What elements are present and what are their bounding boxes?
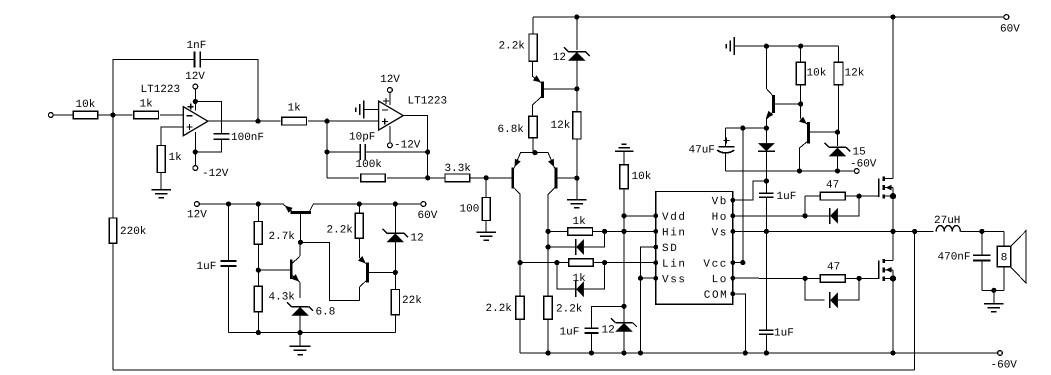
ground at U2 inverting input xyxy=(356,101,378,119)
wire node A up to C1 xyxy=(113,60,195,116)
node -12V terminal of U1 xyxy=(193,166,229,180)
resistor R8 2.7k xyxy=(254,204,295,270)
wire Ho stub up xyxy=(805,196,820,216)
resistor R13 6.8k xyxy=(497,116,537,152)
resistor R17 2.2k xyxy=(544,247,583,353)
wire output feedback down xyxy=(914,231,916,370)
svg-text:LT1223: LT1223 xyxy=(407,96,447,108)
wire R24 to M2 gate xyxy=(846,277,879,279)
resistor R6 3.3k xyxy=(428,163,472,182)
svg-text:2.7k: 2.7k xyxy=(268,231,295,243)
capacitor C9 470nF xyxy=(937,231,990,290)
wire Lin left to R19 xyxy=(557,262,569,264)
capacitor C4 1uF xyxy=(196,204,236,333)
wire oscillator ground rail xyxy=(229,330,396,335)
zener D3 12 xyxy=(553,17,590,89)
svg-text:12V: 12V xyxy=(380,74,400,86)
wire U1 supply to C2 xyxy=(195,101,221,133)
svg-text:4.3k: 4.3k xyxy=(268,292,295,304)
wire Lo stub down xyxy=(805,278,824,300)
svg-text:12V: 12V xyxy=(187,209,207,221)
svg-text:60V: 60V xyxy=(417,210,437,222)
wire R8 to Q2 base xyxy=(258,269,290,271)
node U3 pin Vdd xyxy=(653,212,686,224)
wire COM stub xyxy=(733,294,745,353)
wire Q1 base to Q3 collector xyxy=(300,242,359,300)
wire R2 to U1 inverting input xyxy=(160,114,184,116)
svg-text:1k: 1k xyxy=(168,152,182,164)
svg-text:Hin: Hin xyxy=(662,227,687,239)
diode D5 parallel R19 xyxy=(557,263,605,298)
wire R23 to M1 gate xyxy=(846,195,879,197)
node R19 left junction xyxy=(554,260,559,265)
svg-text:COM: COM xyxy=(704,290,729,302)
ground below R3 xyxy=(151,173,171,198)
node U3 pin Hin xyxy=(653,227,686,239)
wire main -60V rail xyxy=(520,350,998,355)
resistor R20 10k xyxy=(620,165,652,323)
transistor Q3 pnp xyxy=(358,238,395,300)
node B junction xyxy=(324,119,329,124)
node R19 right junction xyxy=(602,260,607,265)
wire Ho row xyxy=(733,213,830,218)
capacitor C1 1nF xyxy=(186,40,206,68)
svg-text:1k: 1k xyxy=(572,273,586,285)
ground of aux supply xyxy=(726,37,753,55)
wire U2 output down xyxy=(403,115,430,180)
svg-text:27uH: 27uH xyxy=(934,215,960,227)
svg-text:1k: 1k xyxy=(287,103,301,115)
wire Vdd row xyxy=(624,215,656,217)
resistor R18 1k xyxy=(568,216,593,235)
inductor L1 27uH xyxy=(934,215,960,231)
node U3 pin Vs xyxy=(712,227,736,239)
node input terminal IN xyxy=(48,113,73,118)
wire U1 output xyxy=(208,119,281,124)
transistor M2 nmos xyxy=(879,259,893,281)
transistor Q4 pnp xyxy=(512,153,535,263)
transistor Q8 npn xyxy=(766,46,801,128)
node C junction xyxy=(484,175,489,180)
svg-text:1uF: 1uF xyxy=(774,328,794,340)
capacitor C6 47uF xyxy=(688,128,734,171)
node -60V terminal of aux rail xyxy=(850,159,877,174)
node -12V terminal of U2 xyxy=(388,140,421,152)
resistor R14 2.2k xyxy=(498,17,537,61)
transistor M1 nmos xyxy=(879,177,893,199)
wire Vcc node row xyxy=(726,126,769,131)
svg-text:1k: 1k xyxy=(572,216,586,228)
svg-text:12: 12 xyxy=(601,325,614,337)
resistor R12 220k xyxy=(109,115,147,370)
zener D2 12 xyxy=(382,204,423,272)
resistor R7 100 xyxy=(459,178,490,221)
node C7 bottom junction on Vs row xyxy=(764,229,769,234)
node U3 pin SD xyxy=(653,243,678,255)
wire Hin row left xyxy=(548,230,567,232)
node 60V supply terminal xyxy=(1000,15,1020,36)
wire node A to R2 xyxy=(113,114,133,116)
wire M1 source to output xyxy=(892,196,894,231)
svg-text:100k: 100k xyxy=(355,159,382,171)
svg-text:6.8k: 6.8k xyxy=(497,124,524,136)
svg-text:1uF: 1uF xyxy=(559,327,579,339)
speaker SPK 8 ohm xyxy=(997,231,1026,291)
svg-text:10k: 10k xyxy=(631,171,651,183)
resistor R23 47 xyxy=(820,180,845,201)
ground of output xyxy=(984,290,1004,312)
resistor R1 10k xyxy=(73,99,98,119)
resistor R19 1k xyxy=(569,259,594,285)
node speaker ground junction xyxy=(991,288,996,293)
svg-text:1uF: 1uF xyxy=(196,261,216,273)
svg-text:2.2k: 2.2k xyxy=(498,41,525,53)
node output junction xyxy=(979,229,984,234)
zener D1 6.8 xyxy=(287,302,335,332)
wire global feedback bottom xyxy=(113,369,915,371)
svg-text:100: 100 xyxy=(459,204,479,216)
node Q1 base junction xyxy=(298,240,303,245)
diode D7 bootstrap xyxy=(758,128,775,181)
wire R6 to node C xyxy=(469,177,511,179)
wire C2 to -12V node xyxy=(193,139,222,154)
wire L1 to output node xyxy=(960,230,1003,232)
node bootstrap junction xyxy=(764,178,769,183)
node Q3 base junction xyxy=(393,270,398,275)
wire Vb jog xyxy=(733,181,767,200)
svg-text:-60V: -60V xyxy=(850,159,877,171)
node A junction xyxy=(110,112,115,117)
diode D10 gate low xyxy=(830,278,860,308)
capacitor C3 10pF xyxy=(327,132,428,161)
zener D6 12 xyxy=(601,318,636,353)
resistor R9 4.3k xyxy=(254,270,295,332)
svg-text:Vb: Vb xyxy=(712,196,728,208)
wire SD to Vss tie xyxy=(638,247,656,353)
node Q7 collector junction xyxy=(546,229,551,234)
wire C1 to U1 output node xyxy=(200,60,258,122)
zener D8 15 xyxy=(825,132,866,171)
svg-text:Ho: Ho xyxy=(712,212,728,224)
svg-text:8: 8 xyxy=(1001,252,1008,264)
svg-text:3.3k: 3.3k xyxy=(444,163,471,175)
wire U2 +12V supply xyxy=(389,92,391,105)
wire Vcc stub xyxy=(733,128,746,265)
wire aux -60V rail xyxy=(726,168,855,173)
ground below R15 xyxy=(567,178,587,207)
svg-text:-60V: -60V xyxy=(990,360,1017,372)
wire Lin row left xyxy=(520,262,557,264)
transistor Q2 npn xyxy=(291,242,300,298)
transistor Q5 pnp xyxy=(532,61,576,116)
wire R19 to IC Lin xyxy=(593,262,656,264)
resistor R15 12k xyxy=(550,89,581,178)
wire 60V rail of oscillator xyxy=(357,201,421,206)
svg-text:1nF: 1nF xyxy=(186,40,206,52)
node 12V terminal of U1 xyxy=(185,71,205,89)
node M1 gate junction xyxy=(857,194,862,199)
svg-text:2.2k: 2.2k xyxy=(485,303,512,315)
capacitor C2 100nF xyxy=(213,132,264,144)
svg-text:6.8: 6.8 xyxy=(315,307,335,319)
node Q5 base junction xyxy=(574,86,579,91)
svg-text:2.2k: 2.2k xyxy=(326,225,353,237)
ground above R20 xyxy=(615,144,634,164)
svg-text:Lo: Lo xyxy=(712,274,728,286)
svg-text:22k: 22k xyxy=(402,295,422,307)
node Q9 base junction xyxy=(835,130,840,135)
node 60V terminal of oscillator xyxy=(417,202,437,222)
resistor R21 10k xyxy=(796,46,827,118)
resistor R3 1k to ground xyxy=(157,127,183,173)
svg-text:12k: 12k xyxy=(550,120,570,132)
diode D4 parallel R18 xyxy=(546,231,605,255)
wire Hin row to IC xyxy=(621,229,655,234)
node U3 pin Ho xyxy=(712,212,736,224)
svg-text:-12V: -12V xyxy=(394,140,421,152)
svg-text:Vdd: Vdd xyxy=(662,212,687,224)
node U3 pin Vcc xyxy=(703,259,735,271)
svg-text:15: 15 xyxy=(852,147,865,159)
node M2 source dot xyxy=(890,275,896,281)
svg-text:220k: 220k xyxy=(120,226,147,238)
op-amp U2 LT1223 xyxy=(379,96,448,131)
capacitor C8 1uF xyxy=(759,231,794,353)
svg-text:100nF: 100nF xyxy=(231,132,264,144)
svg-text:12V: 12V xyxy=(185,71,205,83)
node 12V terminal of regulator xyxy=(187,202,207,222)
svg-text:LT1223: LT1223 xyxy=(140,84,180,96)
IC U3 IR2110 gate driver xyxy=(656,192,733,305)
node U3 pin Lo xyxy=(712,274,736,286)
resistor R10 2.2k xyxy=(326,204,363,238)
wire U2 -12V supply pin xyxy=(389,126,391,143)
svg-text:12k: 12k xyxy=(844,68,864,80)
transistor Q7 pnp xyxy=(535,153,577,232)
svg-text:47: 47 xyxy=(827,262,840,274)
ground below R7 xyxy=(476,221,496,241)
node U3 pin COM xyxy=(704,290,736,302)
transistor Q1 npn xyxy=(284,205,313,243)
wire R4 to node B xyxy=(308,120,379,122)
wire M1 drain to 60V rail xyxy=(892,17,894,178)
svg-text:60V: 60V xyxy=(1000,24,1020,36)
svg-text:Vcc: Vcc xyxy=(703,259,728,271)
svg-text:10k: 10k xyxy=(806,68,826,80)
wire aux supply top rail xyxy=(734,44,838,49)
wire M2 drain to output row xyxy=(892,231,894,260)
svg-text:2.2k: 2.2k xyxy=(556,304,583,316)
wire node B down to C3 row xyxy=(324,121,329,178)
node U3 pin Vb xyxy=(712,196,736,208)
node R8 bottom junction xyxy=(256,268,261,273)
node diff pair emitter junction xyxy=(532,150,537,155)
node -60V terminal main xyxy=(990,351,1017,372)
svg-text:470nF: 470nF xyxy=(937,252,970,264)
svg-text:10k: 10k xyxy=(75,99,95,111)
wire R18 to Hin node xyxy=(593,230,624,232)
svg-text:Vs: Vs xyxy=(712,227,728,239)
node C5 top junction xyxy=(621,304,626,309)
svg-text:12: 12 xyxy=(410,233,423,245)
wire M2 source to -60V rail xyxy=(892,278,894,353)
resistor R22 12k xyxy=(834,46,865,132)
svg-text:10pF: 10pF xyxy=(349,132,375,144)
wire speaker bottom row xyxy=(982,289,1004,291)
diode D9 gate high xyxy=(830,196,860,224)
svg-text:Vss: Vss xyxy=(662,274,687,286)
resistor R2 1k xyxy=(134,99,159,119)
wire Lo row xyxy=(733,276,830,281)
wire U1 -12V supply pin xyxy=(194,132,196,166)
resistor R16 2.2k xyxy=(485,263,524,353)
svg-text:-12V: -12V xyxy=(202,168,229,180)
node M1 source dot xyxy=(890,193,896,199)
node R15 bottom junction xyxy=(574,176,579,181)
wire Vs output row xyxy=(733,229,934,234)
node U3 pin Lin xyxy=(653,259,686,271)
svg-text:SD: SD xyxy=(662,243,678,255)
svg-text:1uF: 1uF xyxy=(776,191,796,203)
node U3 pin Vss xyxy=(653,274,686,286)
node 12V terminal of U2 xyxy=(380,74,400,92)
resistor R24 47 xyxy=(820,262,845,283)
resistor R4 1k xyxy=(282,103,307,126)
wire Q1 collector to 60V rail xyxy=(313,203,359,205)
wire R1 to node A xyxy=(98,114,113,116)
wire U1 +12V supply xyxy=(193,89,198,111)
svg-text:47: 47 xyxy=(826,180,839,192)
resistor R5 100k xyxy=(327,159,428,182)
node Q4 collector junction xyxy=(518,260,523,265)
svg-text:47uF: 47uF xyxy=(688,145,714,157)
node R18 right junction xyxy=(602,229,607,234)
wire 12V rail xyxy=(199,201,284,206)
transistor Q9 pnp xyxy=(799,117,838,171)
ground of oscillator rail xyxy=(290,333,311,355)
resistor R11 22k xyxy=(391,272,422,332)
op-amp U1 LT1223 xyxy=(140,84,207,136)
wire 60V top rail xyxy=(533,14,1004,19)
svg-text:1k: 1k xyxy=(139,99,153,111)
svg-text:12: 12 xyxy=(553,52,566,64)
capacitor C5 1uF xyxy=(559,306,624,353)
node Vdd junction xyxy=(621,213,626,218)
capacitor C7 1uF bootstrap xyxy=(759,181,796,231)
svg-text:Lin: Lin xyxy=(662,259,687,271)
node M2 gate junction xyxy=(857,276,862,281)
